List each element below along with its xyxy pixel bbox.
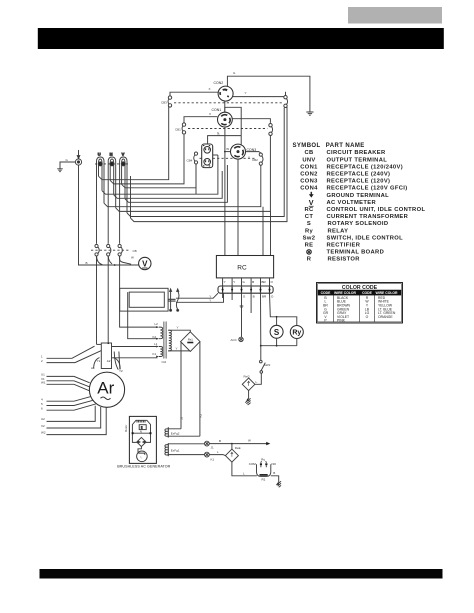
circuit breaker CB pole 2	[107, 244, 111, 256]
harness box CT outer	[120, 288, 168, 311]
generator collar	[94, 358, 121, 370]
svg-text:CON4: CON4	[300, 186, 318, 192]
wire CON4 right to L4	[213, 154, 218, 156]
legend ground symbol	[309, 192, 314, 198]
svg-text:NO: NO	[272, 462, 277, 466]
stator lead 6	[47, 404, 96, 410]
wire pole U to box	[97, 343, 102, 345]
transformer secondary	[168, 330, 171, 351]
svg-text:CB: CB	[133, 249, 137, 253]
wire CON3 W left	[225, 151, 231, 153]
collar labels	[91, 359, 123, 373]
wire Re1 K2 down	[199, 342, 201, 436]
svg-text:Y1: Y1	[97, 359, 101, 363]
svg-text:RC: RC	[304, 207, 314, 213]
gray tab top right	[348, 7, 442, 24]
wire J1 to arrow	[209, 443, 266, 445]
wire CB pole jogs	[97, 256, 113, 265]
wire ReE bottom to relay contact	[232, 462, 257, 476]
ground terminal GT	[57, 150, 81, 172]
wire CB3 to CON2	[170, 92, 218, 96]
RC pin stubs	[223, 278, 270, 286]
svg-text:CB: CB	[304, 150, 313, 156]
ground ReG	[246, 398, 250, 401]
rotor winding cup	[132, 420, 150, 442]
wire Sw2 to ReG	[255, 373, 261, 384]
wire K1 to ReE	[209, 455, 225, 456]
wire secondary to Re1	[169, 330, 191, 351]
svg-text:RE: RE	[305, 243, 314, 249]
circuit breaker CB pole 3	[118, 244, 122, 256]
wire pin1 down	[222, 293, 224, 298]
svg-text:SWITCH, IDLE CONTROL: SWITCH, IDLE CONTROL	[327, 235, 404, 241]
svg-text:OUTPUT TERMINAL: OUTPUT TERMINAL	[327, 157, 388, 163]
wire CON4 G top	[208, 136, 242, 144]
wire ReE top to J1 line	[231, 444, 233, 450]
svg-text:U: U	[98, 151, 101, 156]
svg-text:W: W	[248, 438, 251, 442]
voltmeter V	[139, 257, 151, 269]
wire ExFg1 to J1 K1	[168, 444, 204, 455]
svg-text:Y: Y	[233, 280, 235, 284]
svg-text:ACC: ACC	[231, 338, 238, 342]
svg-text:V2: V2	[41, 424, 45, 428]
svg-text:CIRCUIT BREAKER: CIRCUIT BREAKER	[327, 150, 386, 156]
svg-text:Re1: Re1	[188, 338, 194, 342]
svg-text:U2: U2	[41, 417, 45, 421]
svg-text:Ar: Ar	[97, 379, 114, 398]
svg-text:L2: L2	[155, 322, 159, 326]
svg-text:CB3: CB3	[161, 100, 167, 104]
svg-text:ExFg1: ExFg1	[171, 448, 180, 452]
svg-text:RECEPTACLE (240V): RECEPTACLE (240V)	[327, 172, 391, 178]
svg-text:GROUND TERMINAL: GROUND TERMINAL	[327, 193, 390, 199]
rectifier Re1	[181, 332, 200, 352]
wire L2	[110, 135, 184, 184]
svg-text:A2: A2	[107, 359, 111, 363]
svg-text:Y: Y	[209, 299, 211, 303]
relay contact Ry	[257, 461, 271, 476]
exciter field coil ExFg1	[165, 443, 168, 456]
svg-text:B: B	[219, 439, 221, 443]
svg-text:W2: W2	[41, 430, 46, 434]
svg-text:UNV: UNV	[302, 157, 315, 163]
wire L5	[114, 171, 223, 198]
svg-text:PART NAME: PART NAME	[326, 143, 365, 149]
svg-text:L1: L1	[154, 342, 158, 346]
svg-text:Ry: Ry	[292, 330, 301, 337]
svg-text:RC: RC	[237, 265, 247, 272]
transformer CT2 primary coil 1	[159, 327, 163, 339]
svg-text:TERMINAL BOARD: TERMINAL BOARD	[327, 250, 385, 256]
svg-text:Y2: Y2	[119, 369, 123, 373]
wire pin6 to S and Ry	[270, 293, 297, 326]
svg-text:X: X	[209, 87, 211, 91]
stator lead 5	[47, 400, 94, 405]
color code table frame	[317, 283, 403, 324]
svg-text:A1: A1	[91, 366, 95, 370]
svg-text:SYMBOL: SYMBOL	[293, 143, 321, 149]
bottom black bar	[40, 569, 443, 579]
terminal ACC	[239, 337, 243, 341]
wire CON2 G top	[227, 76, 310, 112]
wire CON2 G bottom jog	[225, 101, 241, 136]
svg-text:CON2: CON2	[214, 81, 224, 85]
stator lead 1	[47, 346, 95, 358]
circuit breaker CB pole 1	[95, 244, 99, 256]
wire Re1 J2 down	[180, 342, 182, 429]
wire voltmeter feed	[120, 256, 132, 264]
svg-text:S: S	[274, 328, 280, 337]
transformer CT2 primary arrows	[156, 326, 159, 357]
svg-text:V: V	[142, 260, 148, 269]
svg-text:U1: U1	[41, 373, 45, 377]
svg-text:K2: K2	[153, 335, 157, 339]
RC connector strip	[218, 286, 273, 293]
wire S Ry bottoms	[261, 338, 297, 346]
wire L8	[116, 136, 271, 212]
ground top right	[306, 112, 313, 115]
svg-text:W1: W1	[41, 381, 46, 385]
harness box inner	[129, 292, 164, 307]
stator lead U1	[47, 376, 90, 382]
wire pin2 down	[231, 293, 233, 300]
svg-text:CODE: CODE	[362, 291, 373, 295]
wire mains through CT box	[120, 288, 158, 338]
wire L10	[131, 107, 288, 222]
dashed through terminals	[95, 163, 129, 165]
svg-text:CURRENT TRANSFORMER: CURRENT TRANSFORMER	[327, 214, 409, 220]
wire CON3 G down to RC	[238, 136, 241, 256]
connector UNV right 2	[269, 124, 273, 136]
relay coil Ry	[290, 326, 303, 339]
rotor field coil	[138, 447, 145, 455]
solenoid S	[276, 317, 278, 326]
wire L3	[122, 165, 196, 188]
wire CON1 Y right	[232, 119, 270, 123]
svg-text:BRUSHLESS AC GENERATOR: BRUSHLESS AC GENERATOR	[117, 464, 170, 468]
switch Sw2	[260, 360, 266, 373]
wire pin5 to Sw2	[260, 293, 262, 360]
stator lead V1	[47, 381, 90, 387]
rotor diode	[137, 437, 146, 446]
terminal board K1b	[205, 452, 210, 457]
rectifier ReG	[242, 378, 255, 391]
CB linkage dashed	[91, 249, 131, 251]
svg-text:B: B	[252, 280, 254, 284]
dashed linkage CB3	[174, 102, 283, 104]
svg-text:X: X	[209, 112, 211, 116]
svg-text:V: V	[309, 198, 314, 207]
svg-text:W: W	[131, 256, 134, 260]
wire bundle taps to RC	[263, 207, 271, 256]
wire L4	[102, 155, 218, 194]
svg-text:CT: CT	[305, 214, 314, 220]
svg-text:WIRE COLOR: WIRE COLOR	[334, 291, 357, 295]
svg-text:V: V	[122, 151, 125, 156]
svg-text:Y: Y	[224, 280, 226, 284]
svg-text:CON1: CON1	[212, 108, 222, 112]
svg-text:Y: Y	[176, 346, 178, 350]
wire collar Y2 to K1 coil	[112, 357, 158, 359]
svg-text:Y: Y	[177, 326, 179, 330]
rotor resistor line	[132, 432, 150, 434]
breaker CB3	[168, 96, 172, 107]
contact labels	[249, 458, 277, 482]
breaker CB1	[182, 123, 186, 134]
wire pin4 down	[250, 293, 252, 313]
svg-text:CON1: CON1	[300, 164, 318, 170]
strip pin dots	[222, 289, 271, 291]
wire bundle columns U	[97, 176, 105, 244]
svg-text:S: S	[307, 221, 311, 227]
breaker CB4	[194, 152, 198, 164]
color code data	[323, 296, 396, 323]
svg-text:CON3: CON3	[300, 179, 318, 185]
svg-text:ReE: ReE	[235, 446, 241, 450]
svg-text:RECEPTACLE (120/240V): RECEPTACLE (120/240V)	[327, 164, 404, 170]
RC pin labels	[224, 280, 274, 284]
terminal board J1	[205, 441, 210, 446]
wire CON3 Y right to CB2	[246, 152, 261, 153]
wire contact to ground	[271, 476, 279, 483]
pin bottom labels	[243, 295, 274, 299]
svg-text:PINK: PINK	[337, 319, 346, 323]
receptacle CON4 GFCI	[202, 144, 213, 168]
svg-text:B: B	[86, 261, 88, 265]
wire pin3 to ACC	[241, 293, 243, 337]
stator lead W2	[47, 407, 107, 434]
rotor box	[129, 416, 156, 463]
svg-text:Sw2: Sw2	[303, 235, 316, 241]
svg-text:CONTROL UNIT, IDLE CONTROL: CONTROL UNIT, IDLE CONTROL	[327, 207, 426, 213]
svg-text:CB2: CB2	[252, 158, 258, 162]
svg-text:ReG: ReG	[244, 374, 251, 378]
output terminal V	[120, 151, 127, 176]
svg-text:SW2: SW2	[264, 363, 271, 367]
svg-text:⌇: ⌇	[140, 455, 141, 459]
svg-text:W: W	[226, 147, 229, 151]
svg-text:J2: J2	[180, 417, 184, 421]
svg-text:Ry: Ry	[261, 458, 265, 462]
wire bundle columns V	[120, 176, 131, 244]
svg-text:O: O	[366, 315, 369, 319]
wire CON1 G down	[224, 127, 226, 256]
small ground mark pin3	[240, 306, 244, 307]
transformer CT2 primary coil 2	[159, 347, 163, 357]
color code header row	[318, 290, 402, 295]
svg-text:R: R	[307, 257, 312, 263]
svg-text:RESISTOR: RESISTOR	[328, 257, 361, 263]
svg-text:RECEPTACLE (120V): RECEPTACLE (120V)	[327, 179, 391, 185]
wire ground main down	[79, 165, 139, 265]
wire ReG ground	[248, 391, 250, 399]
svg-text:AC VOLTMETER: AC VOLTMETER	[327, 200, 377, 206]
wire bundle columns N	[108, 176, 116, 244]
dashed linkage CB2-CB4	[200, 157, 256, 159]
legend terminal board symbol	[307, 250, 312, 255]
stator lead V2	[47, 407, 101, 428]
breaker CB2	[259, 153, 263, 165]
wire CB4 down	[195, 164, 197, 194]
svg-text:Ct2: Ct2	[162, 360, 167, 364]
svg-text:CB1: CB1	[175, 127, 181, 131]
wires strip left to CT connector	[176, 293, 224, 302]
receptacle CON1	[218, 107, 233, 127]
svg-text:N: N	[110, 151, 113, 156]
wire box right to K1 line	[112, 346, 158, 348]
wire CB poles down	[97, 256, 120, 344]
wire CON2 Y right	[233, 96, 284, 98]
rectifier ReE	[225, 449, 238, 462]
svg-text:RELAY: RELAY	[328, 228, 349, 234]
legend rows	[300, 150, 407, 199]
svg-text:J1: J1	[211, 445, 215, 449]
svg-text:Y: Y	[248, 155, 250, 159]
svg-text:ROTARY SOLENOID: ROTARY SOLENOID	[328, 221, 389, 227]
wire L9	[127, 108, 284, 217]
receptacle CON3	[231, 144, 246, 159]
stator lead W1	[47, 384, 90, 391]
wire L1	[99, 107, 169, 180]
exciter field coil ExFg2	[165, 427, 168, 437]
svg-text:N: N	[140, 429, 142, 433]
svg-text:CON2: CON2	[300, 172, 318, 178]
svg-text:K2: K2	[199, 413, 203, 417]
wire L7	[104, 166, 261, 207]
svg-text:WIRE COLOR: WIRE COLOR	[375, 291, 398, 295]
svg-text:RECTIFIER: RECTIFIER	[327, 243, 361, 249]
wire CB1 to CON1	[184, 117, 217, 123]
svg-text:CODE: CODE	[321, 291, 332, 295]
control unit RC	[216, 256, 273, 278]
svg-text:Ry: Ry	[305, 228, 314, 234]
svg-text:Rotor: Rotor	[124, 425, 128, 432]
transformer core	[164, 322, 166, 359]
svg-text:CB4: CB4	[187, 158, 193, 162]
exciter box	[101, 343, 111, 369]
svg-text:K1: K1	[211, 457, 215, 461]
svg-text:B: B	[253, 295, 255, 299]
svg-text:B: B	[273, 471, 275, 475]
dashed linkage CB1	[188, 128, 268, 130]
output terminal U	[97, 151, 105, 176]
connector UNV right 1	[284, 92, 288, 108]
output terminal N	[108, 151, 116, 176]
ground relay	[277, 481, 282, 487]
connector pins symbol	[168, 289, 179, 311]
receptacle CON2	[218, 86, 233, 101]
top black bar	[38, 28, 444, 49]
color code dividers	[334, 290, 375, 322]
generator Ar	[89, 372, 124, 407]
wire ExFg2 to J2 K2	[168, 429, 200, 436]
junction	[114, 264, 116, 266]
svg-text:K1: K1	[153, 352, 157, 356]
stator lead 4	[47, 396, 92, 401]
svg-text:ExFg2: ExFg2	[171, 431, 180, 435]
stator lead U2	[47, 406, 96, 422]
wire L6	[125, 165, 227, 202]
svg-text:COM: COM	[249, 462, 256, 466]
svg-text:RECEPTACLE (120V GFCI): RECEPTACLE (120V GFCI)	[327, 186, 408, 192]
stator lead 2	[47, 351, 102, 363]
svg-text:R1: R1	[262, 478, 266, 482]
svg-text:Y: Y	[245, 91, 247, 95]
svg-text:ORANGE: ORANGE	[378, 315, 393, 319]
